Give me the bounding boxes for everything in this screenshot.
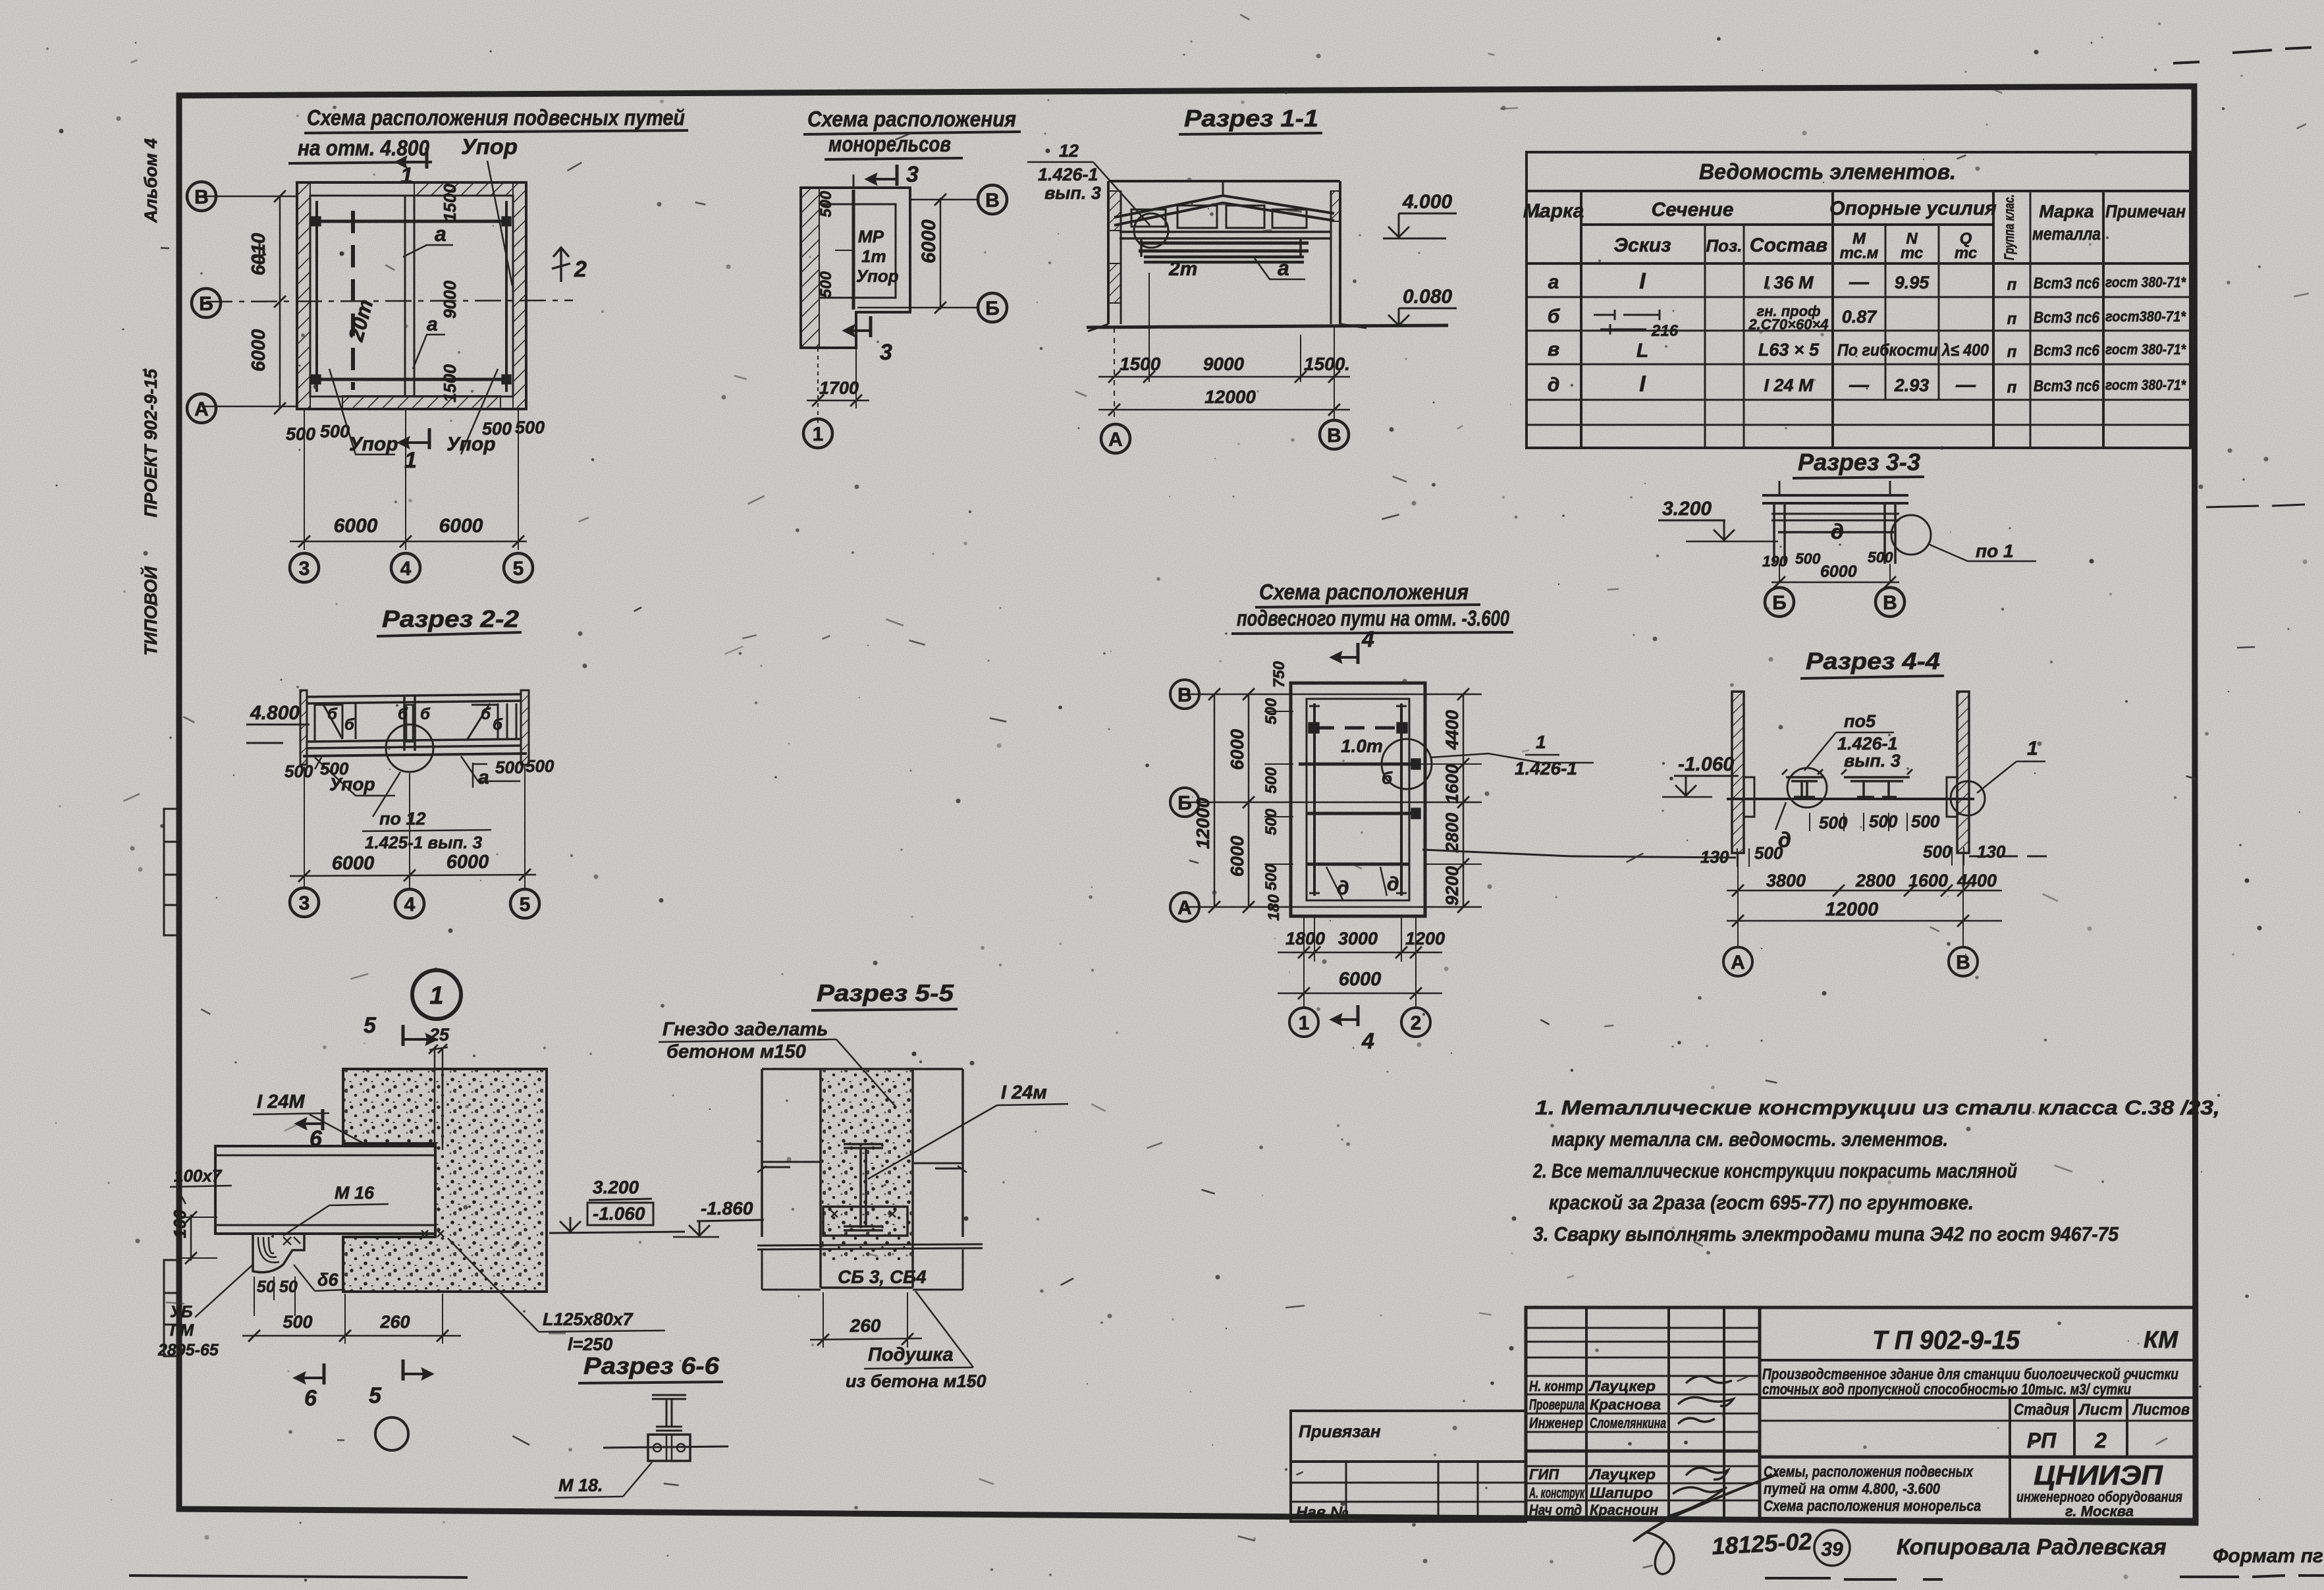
dim line 1800 3000 1200 <box>1278 952 1442 954</box>
truss panels <box>1131 209 1166 227</box>
label 12 / 1.426-1 / вып.3 <box>1027 141 1101 203</box>
row б sketch <box>1594 310 1660 320</box>
leader lines to axis circles <box>911 199 977 201</box>
title: Разрез 1-1 <box>1179 105 1322 134</box>
rotated stamp text left margin <box>140 138 161 656</box>
title: Разрез 3-3 <box>1793 449 1924 478</box>
axis line В <box>202 196 298 198</box>
rail end hooks <box>1309 706 1407 893</box>
attachment sub-table (Привязан) <box>1291 1411 1526 1521</box>
section mark 1 top <box>425 148 429 169</box>
dim line 500 260 <box>242 1335 461 1337</box>
axis circle 4 <box>391 553 420 582</box>
ground line right of detail <box>549 1232 685 1233</box>
hanger assembly box <box>648 1435 690 1461</box>
axis line А <box>202 406 298 408</box>
д label with leader <box>1775 802 1786 830</box>
extension lines below <box>1114 327 1115 422</box>
section mark 5 top <box>402 1025 405 1046</box>
title: Разрез 5-5 <box>811 979 958 1010</box>
small 500 dims column <box>1262 661 1288 921</box>
beam row 3 <box>1307 812 1417 815</box>
weld x marks <box>421 1230 444 1237</box>
dim line 3800 2800 1600 4400 <box>1727 890 2002 892</box>
right column (4-4) <box>1957 692 1969 853</box>
table texts <box>1523 159 2187 397</box>
title: Разрез 2-2 <box>377 605 522 636</box>
label a with leader <box>461 756 520 781</box>
section mark 3 bottom <box>869 316 873 337</box>
right support column <box>1885 503 1895 564</box>
extension to circles <box>1737 853 1739 946</box>
axis circle 2 <box>1401 1008 1430 1037</box>
axis circle Б <box>1170 788 1199 817</box>
monorail left wall hatch <box>801 188 819 348</box>
hanger hooks <box>1141 238 1301 257</box>
section mark 2 right <box>552 248 570 282</box>
dim 6000 rotated right <box>940 198 942 310</box>
dashed beam 1.0т <box>1314 726 1401 730</box>
label а with leader (lower) <box>413 335 445 369</box>
section walls <box>1108 180 1340 182</box>
axis circle А <box>187 394 216 423</box>
dim chain 12000 left <box>1214 694 1216 907</box>
beam (I 24M side view) <box>215 1146 435 1234</box>
roof truss top chord <box>1114 196 1334 225</box>
dim 260 (5-5) <box>810 1338 922 1340</box>
axis circle В (разрез 1-1) <box>1320 420 1349 449</box>
fold marks left edge lower <box>164 1260 179 1356</box>
monorail inner wall lines <box>819 204 896 298</box>
sheet subject <box>1764 1463 1981 1514</box>
leader from Упор to plan top wall <box>487 161 512 286</box>
page frame border <box>179 86 2196 1523</box>
beam line across <box>1727 798 1974 800</box>
bottom-left fold line <box>129 1576 468 1577</box>
label по5 1.426-1 вып.3 <box>1836 711 1901 771</box>
top right scan dashes <box>2173 47 2311 63</box>
beam row 2 <box>1299 763 1416 766</box>
detail circle right <box>1891 515 1931 555</box>
monorail beam under truss <box>1139 243 1309 251</box>
section mark 4 top <box>1357 643 1360 664</box>
axis circle Б monorail <box>978 293 1007 322</box>
title block stamp <box>1526 1307 2196 1520</box>
axis circle А <box>1170 892 1199 921</box>
detail mark circle 1 <box>412 970 461 1019</box>
monorail beam vertical <box>852 190 855 310</box>
empty circle below <box>375 1417 408 1450</box>
extension lines to bottom dim <box>304 409 305 550</box>
dim line 1500 9000 1500 <box>1098 376 1350 378</box>
axis circle В <box>187 182 216 211</box>
axis circle 4 (2-2) <box>395 889 424 918</box>
dim line 12000 <box>1098 409 1350 411</box>
left support column <box>1774 503 1785 564</box>
beam row 4 <box>1307 863 1409 866</box>
axis line Б (dash-dot) <box>206 300 573 302</box>
detail circle on right rail <box>1382 739 1432 789</box>
plan1 middle column wall <box>405 196 414 397</box>
parts table Ведомость элементов <box>1527 152 2190 448</box>
monorail plan walls <box>801 188 910 348</box>
title: Схема расположения монорельсов <box>803 107 1021 159</box>
bottom dashes <box>1765 1578 1943 1579</box>
axis circle 5 <box>504 553 533 582</box>
beam end plate in pocket <box>434 1143 437 1237</box>
section mark 1 left (small) <box>252 242 266 266</box>
axis circle 3 (2-2) <box>290 888 319 917</box>
bottom dim line 6000 6000 <box>290 541 527 543</box>
signatures squiggles <box>1633 1376 1778 1574</box>
detail circle middle <box>386 725 433 772</box>
title: Схема расположения подвесного пути на отм.-3.600 <box>1231 580 1513 634</box>
axis circle 5 (2-2) <box>510 889 539 918</box>
подушка box <box>823 1207 907 1236</box>
walls and concrete core 5-5 <box>762 1068 963 1070</box>
notes text block <box>1532 1096 2220 1246</box>
axis circle А (4-4) <box>1723 947 1752 976</box>
д labels with leaders <box>1326 867 1387 901</box>
rails vertical <box>1313 703 1316 896</box>
leader from label to roof <box>1093 162 1150 225</box>
по 12 / 1.425-1 вып.3 <box>373 772 400 817</box>
circled 39 <box>1814 1530 1850 1566</box>
labels б small <box>327 705 503 734</box>
extension lines down <box>304 767 305 888</box>
concrete block with stipple <box>343 1069 547 1292</box>
middle columns <box>404 696 415 751</box>
truss diagonals left bay <box>315 703 342 740</box>
leader по 1 <box>1928 544 2036 561</box>
vertical dim line 6000/6000 left of plan <box>279 196 281 408</box>
detail circle on truss left <box>1134 213 1168 248</box>
title: Схема расположения подвесных путей <box>288 105 688 163</box>
rail line through <box>603 1446 728 1448</box>
top beam double line <box>307 694 521 703</box>
plan1 outer walls <box>297 182 526 409</box>
label Гнездо заделать бетоном м150 <box>659 1019 836 1062</box>
detail circle left rail <box>1787 768 1827 808</box>
bottom extension lines <box>1314 916 1315 962</box>
section mark 1 bottom <box>428 428 431 449</box>
label УБ ГМ 2895-65 <box>157 1303 219 1359</box>
dim line 12000 (4-4) <box>1727 920 2002 922</box>
crane dashed travel line 20т <box>351 211 355 390</box>
dim line 6000 6000 <box>290 875 536 876</box>
floor line across <box>757 1244 983 1249</box>
plan walls <box>1291 683 1425 916</box>
axis circle 1 monorail <box>803 419 832 448</box>
long leader line from plan to 4-4 <box>1422 850 1571 856</box>
crane rails vertical <box>315 201 318 392</box>
axis lines В Б А <box>1185 694 1482 696</box>
stadia list <box>2014 1401 2190 1452</box>
small dims 500 500 500 <box>1819 811 1940 833</box>
Упор leaders bottom <box>329 369 395 454</box>
monorail top tick <box>853 175 855 188</box>
stipple concrete core <box>822 1070 911 1261</box>
axis circle В monorail <box>978 185 1007 214</box>
top ticks <box>1779 481 1781 495</box>
axis circle 1 <box>1289 1008 1318 1037</box>
truss bottom chord <box>1120 232 1332 238</box>
rail stops small squares <box>312 217 320 225</box>
building title <box>1762 1365 2178 1398</box>
разрез 2-2 walls <box>300 690 307 765</box>
section mark 6 small top <box>321 1109 325 1130</box>
bottom rail line <box>307 739 521 748</box>
title: Разрез 6-6 <box>578 1352 723 1383</box>
plan1 top wall hatch (right part) <box>414 182 513 196</box>
dim 1700 bottom <box>817 348 819 428</box>
left rail I-section with hangers <box>1786 777 1823 797</box>
plan1 bottom wall hatch <box>342 396 500 409</box>
axis circle Б (3-3) <box>1765 588 1794 617</box>
section mark 3 top <box>896 165 899 186</box>
axis circle В (4-4) <box>1949 947 1978 976</box>
wall hatch patches <box>1108 191 1121 231</box>
title: Разрез 4-4 <box>1800 647 1944 678</box>
section mark 4 bottom <box>1357 1005 1360 1026</box>
block joints left/right <box>762 1162 821 1167</box>
разрез 3-3 beams <box>1762 495 1908 503</box>
crane rail horizontal top <box>314 220 508 223</box>
ground line <box>1087 325 1448 327</box>
label а with leader <box>1255 258 1305 279</box>
Упор label with leader <box>315 757 395 796</box>
small I-beam detail (6-6) <box>652 1395 686 1399</box>
axis circle В <box>1170 680 1199 709</box>
I-beam vertical section <box>844 1144 883 1148</box>
axis circle В (3-3) <box>1876 588 1905 617</box>
dim line <box>1771 582 1899 584</box>
axis circle А (разрез 1-1) <box>1101 424 1130 453</box>
section mark 6 bottom <box>323 1363 326 1384</box>
long ground line dashed <box>1571 856 1736 858</box>
dim line 6000 bottom <box>1278 993 1442 995</box>
right rail I-section <box>1844 777 1910 797</box>
truss diagonals right bay <box>468 703 498 739</box>
small dim lines left of plan <box>1264 711 1293 712</box>
fold marks left edge upper <box>164 809 179 935</box>
stamp texts <box>1528 1378 1666 1518</box>
plan1 right wall hatch <box>513 182 526 409</box>
detail circle right end <box>1951 781 1985 815</box>
lower wall edges <box>761 1249 763 1290</box>
bracket below beam <box>253 1234 304 1273</box>
apex vertical tick <box>1222 181 1224 196</box>
inner concrete vertical edge above beam <box>442 1069 444 1143</box>
section mark 5 bottom <box>402 1359 405 1381</box>
axis circle Б <box>192 288 221 317</box>
axis circle 3 <box>290 553 319 582</box>
extension lines right <box>1426 694 1482 695</box>
leader 1 / 1.426-1 <box>1430 754 1594 763</box>
right dim chain 4400 1600 2800 9200 <box>1463 694 1465 907</box>
left column (4-4) <box>1732 692 1744 853</box>
plan1 left wall hatch <box>297 182 310 409</box>
wall plates <box>1744 777 1754 817</box>
crane rail horizontal bottom <box>314 378 508 381</box>
label а with leader (upper) <box>403 245 453 257</box>
dim chain 6000 6000 left <box>1248 694 1250 907</box>
